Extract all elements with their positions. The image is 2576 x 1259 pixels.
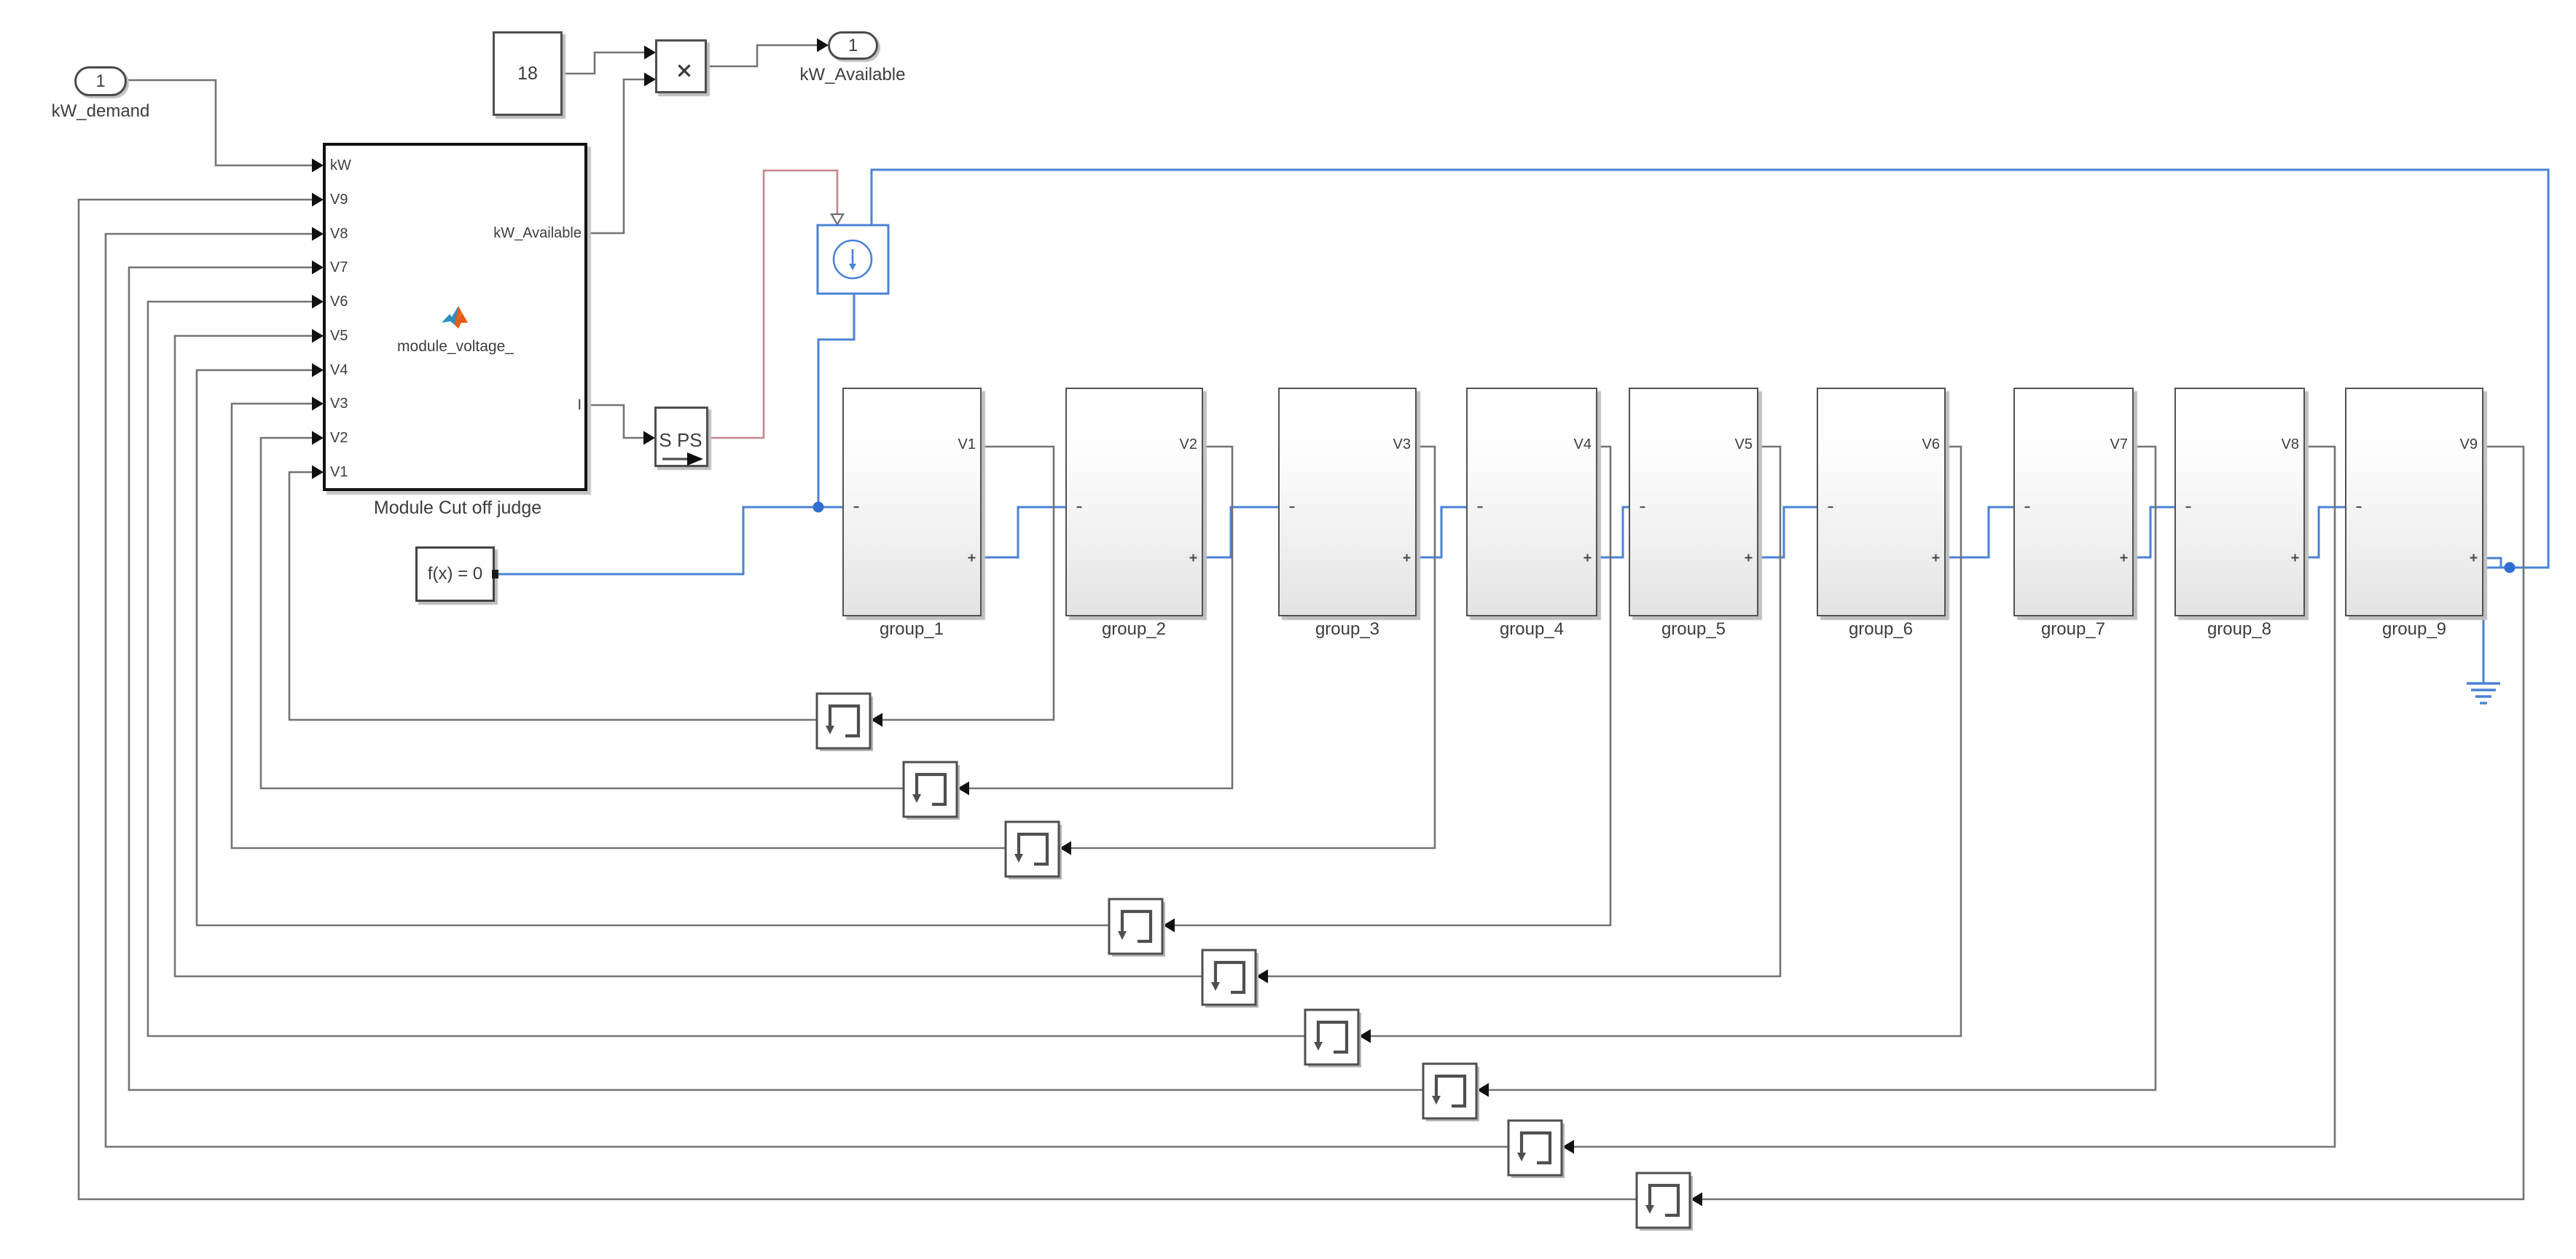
wire current source bottom to group_1 minus node bbox=[818, 294, 854, 507]
wire delay block 7 output left and up to V7 port bbox=[129, 261, 1423, 1091]
output port nub of f(x)=0 bbox=[492, 570, 498, 578]
wire V2 output of group_2 down to delay block 2 bbox=[958, 447, 1232, 796]
pin label plus of group_5 bbox=[1745, 554, 1753, 562]
pin label minus of group_7 bbox=[2024, 505, 2032, 509]
label group_9 bbox=[2327, 619, 2502, 640]
wire V5 output of group_5 down to delay block 5 bbox=[1256, 447, 1780, 984]
subsystem block group_5 bbox=[1629, 388, 1758, 616]
delay block 9 (feedback memory for V9) bbox=[1637, 1173, 1693, 1231]
pin label V9 inside group_9 bbox=[2443, 436, 2478, 453]
pin label V2 inside group_2 bbox=[1162, 436, 1197, 453]
pin label V5 inside group_5 bbox=[1718, 436, 1753, 453]
label group_8 bbox=[2152, 619, 2327, 640]
pin label plus of group_3 bbox=[1403, 554, 1411, 562]
wire group_7 plus to group_8 minus bbox=[2134, 507, 2174, 557]
wire V9 output of group_9 down to delay block 9 bbox=[1691, 447, 2524, 1207]
delay block 6 (feedback memory for V6) bbox=[1305, 1010, 1361, 1067]
junction node at group_1 minus bbox=[813, 502, 824, 513]
pin label V9 on Module Cut off judge bbox=[330, 191, 374, 208]
wire V8 output of group_8 down to delay block 8 bbox=[1562, 447, 2335, 1154]
subsystem block group_4 bbox=[1466, 388, 1597, 616]
label group_1 bbox=[824, 619, 999, 640]
label group_6 bbox=[1793, 619, 1968, 640]
wire kW_Available output to product port 2 bbox=[587, 73, 656, 234]
label kW_demand bbox=[13, 101, 188, 122]
wire kW_demand to kW input bbox=[127, 80, 324, 173]
subsystem block group_7 bbox=[2013, 388, 2134, 616]
wire group_1 plus to group_2 minus bbox=[982, 507, 1065, 557]
pin label V7 on Module Cut off judge bbox=[330, 259, 374, 276]
subsystem block group_9 bbox=[2345, 388, 2483, 616]
pin label V4 inside group_4 bbox=[1557, 436, 1592, 453]
wire constant 18 to product port 1 bbox=[563, 46, 656, 74]
label module_voltage_ bbox=[368, 337, 543, 356]
delay block 2 (feedback memory for V2) bbox=[904, 762, 960, 820]
delay block 4 (feedback memory for V4) bbox=[1109, 899, 1165, 957]
subsystem block group_8 bbox=[2174, 388, 2305, 616]
wire product output to kW_Available outport bbox=[707, 39, 829, 67]
outport 1 kW_Available bbox=[828, 31, 878, 60]
wire delay block 2 output left and up to V2 port bbox=[261, 431, 904, 789]
pin label minus of group_1 bbox=[853, 505, 861, 509]
wire V6 output of group_6 down to delay block 6 bbox=[1359, 447, 1961, 1043]
pin label plus of group_9 bbox=[2470, 554, 2478, 562]
pin label minus of group_2 bbox=[1076, 505, 1084, 509]
MATLAB Function block Module Cut off judge bbox=[323, 143, 587, 491]
subsystem block group_1 bbox=[842, 388, 982, 616]
delay block 3 (feedback memory for V3) bbox=[1006, 822, 1062, 879]
pin label V1 inside group_1 bbox=[941, 436, 976, 453]
pin label V2 on Module Cut off judge bbox=[330, 429, 374, 447]
label kW_Available (outport) bbox=[765, 65, 940, 85]
wire current source top to group_9 loop (long blue) bbox=[872, 170, 2548, 568]
controlled current source block bbox=[818, 225, 888, 294]
label group_7 bbox=[1986, 619, 2161, 640]
pin label V4 on Module Cut off judge bbox=[330, 361, 374, 379]
constant block 18 bbox=[493, 31, 563, 116]
MATLAB logo icon bbox=[442, 305, 469, 329]
wire V7 output of group_7 down to delay block 7 bbox=[1477, 447, 2156, 1097]
wire V1 output of group_1 down to delay block 1 bbox=[871, 447, 1054, 727]
pin label V1 on Module Cut off judge bbox=[330, 463, 374, 481]
wire V3 output of group_3 down to delay block 3 bbox=[1060, 447, 1435, 855]
pin label plus of group_7 bbox=[2120, 554, 2128, 562]
pin label minus of group_3 bbox=[1289, 505, 1296, 509]
delay block 1 (feedback memory for V1) bbox=[817, 694, 873, 751]
ground (electrical reference) bbox=[2467, 683, 2500, 703]
wire delay block 6 output left and up to V6 port bbox=[148, 295, 1305, 1037]
pin label plus of group_2 bbox=[1189, 554, 1197, 562]
pin label V6 on Module Cut off judge bbox=[330, 293, 374, 310]
wire group_6 plus to group_7 minus bbox=[1946, 507, 2013, 557]
pin label plus of group_6 bbox=[1932, 554, 1940, 562]
wire delay block 9 output left and up to V9 port bbox=[79, 193, 1637, 1200]
label group_4 bbox=[1444, 619, 1619, 640]
wire I output to S PS converter bbox=[587, 405, 655, 445]
wire V4 output of group_4 down to delay block 4 bbox=[1163, 447, 1610, 933]
wire delay block 3 output left and up to V3 port bbox=[232, 397, 1006, 849]
wire delay block 1 output left and up to V1 port bbox=[289, 466, 817, 721]
delay block 5 (feedback memory for V5) bbox=[1202, 950, 1258, 1008]
pin label V6 inside group_6 bbox=[1905, 436, 1940, 453]
label group_5 bbox=[1606, 619, 1781, 640]
pin label V8 inside group_8 bbox=[2264, 436, 2299, 453]
pin label minus of group_5 bbox=[1640, 505, 1647, 509]
solver configuration block f(x) = 0 bbox=[415, 546, 495, 602]
wire delay block 4 output left and up to V4 port bbox=[197, 364, 1109, 926]
pin label minus of group_8 bbox=[2185, 505, 2193, 509]
pin label kW on Module Cut off judge bbox=[330, 157, 374, 174]
wire group_8 plus to group_9 minus bbox=[2305, 507, 2345, 557]
pin label minus of group_4 bbox=[1477, 505, 1484, 509]
junction node at group_9 plus bbox=[2505, 562, 2516, 573]
pin label plus of group_8 bbox=[2291, 554, 2299, 562]
inport 1 kW_demand bbox=[74, 66, 127, 96]
label Module Cut off judge bbox=[348, 498, 567, 519]
label group_2 bbox=[1046, 619, 1221, 640]
pin label I output bbox=[552, 396, 582, 414]
pin label V3 inside group_3 bbox=[1376, 436, 1411, 453]
wire S PS output (red) to controlled current source control port bbox=[708, 170, 843, 438]
wire group_5 plus to group_6 minus bbox=[1758, 507, 1817, 557]
S PS converter block bbox=[654, 407, 708, 467]
pin label minus of group_9 bbox=[2356, 505, 2363, 509]
subsystem block group_3 bbox=[1278, 388, 1417, 616]
product block (multiply) bbox=[655, 39, 707, 93]
wire group_4 plus to group_5 minus bbox=[1597, 507, 1629, 557]
subsystem block group_6 bbox=[1817, 388, 1946, 616]
wire group_2 plus to group_3 minus bbox=[1203, 507, 1278, 557]
pin label plus of group_4 bbox=[1583, 554, 1592, 562]
pin label V5 on Module Cut off judge bbox=[330, 327, 374, 345]
pin label minus of group_6 bbox=[1828, 505, 1835, 509]
wire delay block 5 output left and up to V5 port bbox=[175, 329, 1202, 977]
delay block 8 (feedback memory for V8) bbox=[1508, 1121, 1565, 1178]
wire group_3 plus to group_4 minus bbox=[1417, 507, 1466, 557]
wire delay block 8 output left and up to V8 port bbox=[106, 227, 1508, 1148]
pin label V7 inside group_7 bbox=[2093, 436, 2128, 453]
subsystem block group_2 bbox=[1065, 388, 1203, 616]
pin label plus of group_1 bbox=[968, 554, 976, 562]
pin label kW_Available output bbox=[466, 224, 582, 242]
wire group_9 plus to junction and ground bbox=[2483, 558, 2548, 683]
wire solver f(x)=0 to group_1 minus port bbox=[494, 507, 842, 574]
pin label V8 on Module Cut off judge bbox=[330, 225, 374, 243]
pin label V3 on Module Cut off judge bbox=[330, 395, 374, 412]
delay block 7 (feedback memory for V7) bbox=[1423, 1064, 1479, 1121]
label group_3 bbox=[1260, 619, 1435, 640]
